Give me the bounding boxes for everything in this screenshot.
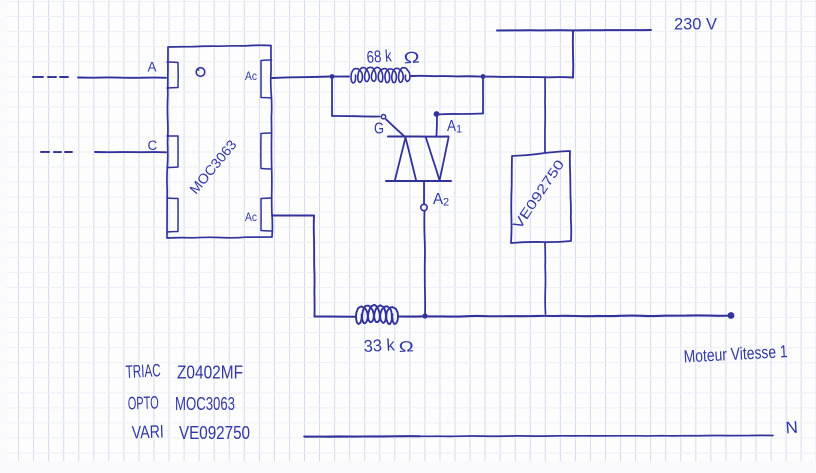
wire node to R1 xyxy=(332,76,349,78)
svg-text:230 V: 230 V xyxy=(674,16,717,34)
wire U1 AC top to node xyxy=(272,77,332,79)
resistor R1 coil (68k) xyxy=(351,67,410,83)
junction at A1 lead xyxy=(434,111,440,117)
VR1 bottom lead xyxy=(544,243,547,314)
gate terminal circle xyxy=(381,115,385,119)
svg-text:33 k: 33 k xyxy=(363,335,395,356)
triac Q1 top bar xyxy=(388,135,449,137)
wire node down (gate branch) xyxy=(331,77,333,117)
svg-text:Ac: Ac xyxy=(245,212,257,224)
svg-text:N: N xyxy=(785,418,799,438)
junction node on bottom rail xyxy=(422,313,427,318)
wire up to 230V line xyxy=(572,31,574,78)
triac Q1 right triangle xyxy=(426,138,449,181)
junction node left of R1 xyxy=(330,74,335,79)
svg-text:MOC3063: MOC3063 xyxy=(175,393,235,414)
wire down left rail xyxy=(313,216,316,317)
wire U1 AC bottom xyxy=(272,215,314,217)
U1 right pin 4 notch xyxy=(261,198,272,231)
svg-text:Ac: Ac xyxy=(245,71,257,83)
svg-text:A: A xyxy=(433,191,443,208)
terminal dot (motor) xyxy=(728,312,735,319)
VR1 top lead xyxy=(544,78,546,153)
svg-text:G: G xyxy=(374,121,384,138)
wire across to A1 xyxy=(437,114,483,115)
svg-text:A: A xyxy=(148,60,157,75)
neutral rail retrace xyxy=(305,435,420,438)
triac Q1 left triangle xyxy=(395,138,416,181)
phase lead dashes (A) xyxy=(33,76,43,78)
U1 right pin 5 notch xyxy=(261,133,272,169)
U1 left pin 3 notch xyxy=(167,198,178,232)
U1 pin-1 marker circle xyxy=(196,68,205,77)
svg-text:VARI: VARI xyxy=(131,421,164,442)
svg-text:OPTO: OPTO xyxy=(127,392,159,413)
svg-text:VE092750: VE092750 xyxy=(179,422,250,443)
phase lead dashes (C) xyxy=(41,151,49,153)
svg-text:2: 2 xyxy=(443,197,449,209)
U1 left pin 1 notch xyxy=(167,62,178,88)
wire C to opto pin xyxy=(95,151,166,153)
svg-text:Ω: Ω xyxy=(398,338,414,356)
A2 lead from triac xyxy=(423,181,425,204)
wire node down (A1 branch) xyxy=(482,77,484,114)
svg-text:Ω: Ω xyxy=(403,49,420,67)
U1 right pin 6 notch xyxy=(261,60,272,98)
triac Q1 bottom bar xyxy=(386,180,451,182)
wire A to opto pin xyxy=(78,76,166,78)
resistor R2 coil (33k) xyxy=(356,305,398,324)
U1 left pin 2 notch xyxy=(167,136,178,168)
svg-text:C: C xyxy=(148,138,158,153)
wire A2 down to bottom rail xyxy=(423,211,426,316)
svg-text:1: 1 xyxy=(456,124,462,136)
svg-text:Z0402MF: Z0402MF xyxy=(177,362,243,383)
neutral rail xyxy=(304,435,773,436)
A2 terminal circle xyxy=(421,204,427,210)
wire R1 to corner xyxy=(411,76,573,78)
svg-text:A: A xyxy=(447,118,456,135)
bottom rail left segment xyxy=(315,315,357,317)
svg-text:TRIAC: TRIAC xyxy=(125,360,161,382)
230V supply line xyxy=(497,29,651,32)
junction node right of R1 xyxy=(481,74,486,79)
varistor VR1 body xyxy=(511,151,571,243)
A1 lead into triac xyxy=(436,115,439,136)
wire across to gate xyxy=(332,115,380,118)
svg-text:68 k: 68 k xyxy=(366,46,393,67)
bottom rail right segment xyxy=(399,315,731,316)
opto-coupler U1 MOC3063 body xyxy=(167,45,272,238)
gate lead diagonal xyxy=(386,119,406,137)
